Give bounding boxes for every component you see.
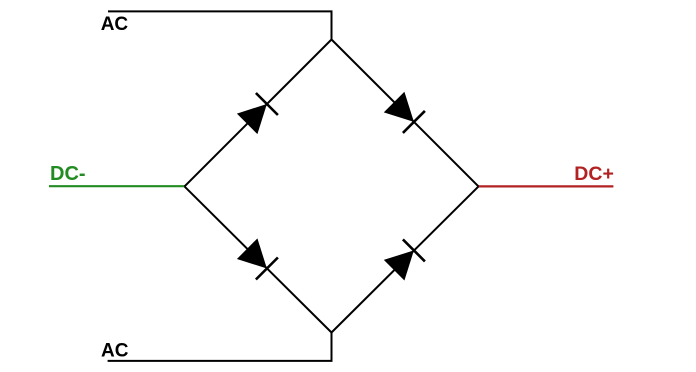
wire top AC lead (108, 11, 332, 39)
svg-text:AC: AC (101, 14, 129, 35)
wire DC+ lead (479, 185, 614, 187)
svg-text:DC-: DC- (50, 163, 86, 185)
svg-text:DC+: DC+ (574, 163, 614, 185)
wire bridge edge B-R (332, 186, 479, 332)
svg-text:AC: AC (101, 341, 129, 362)
diode D1 (left-top arm, anode at DC-) (237, 93, 278, 134)
wire bridge edge T-R (332, 40, 479, 187)
wire bottom AC lead (108, 333, 332, 361)
diode D4 (bottom-right arm, cathode at DC+) (384, 239, 425, 280)
diode D3 (left-bottom arm, anode at DC-) (237, 238, 278, 279)
wire bridge edge L-T (185, 40, 332, 187)
wire DC- lead (49, 185, 185, 187)
diode D2 (top-right arm, cathode at DC+) (384, 92, 425, 133)
wire bridge edge L-B (185, 186, 332, 332)
